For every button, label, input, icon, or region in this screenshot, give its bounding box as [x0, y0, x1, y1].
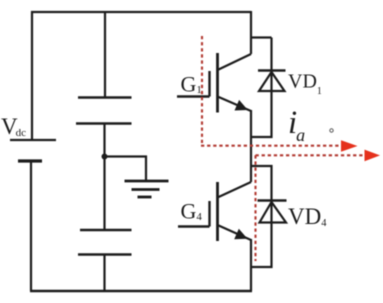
wire: VD1 branch [251, 38, 272, 138]
capacitor C2 top plate [80, 229, 132, 232]
wire: bottom rail [30, 290, 252, 293]
svg-text:G1: G1 [181, 72, 202, 97]
arrowhead of VD4 current path [365, 150, 381, 162]
wire: center branch lower [103, 255, 105, 292]
wire: right branch top [250, 11, 252, 54]
wire: right branch mid (output node) [250, 110, 252, 182]
svg-text:Vdc: Vdc [1, 114, 26, 139]
wire: left vertical (top, to battery) [31, 11, 33, 140]
wire: VD4 branch [251, 166, 272, 267]
arrowhead of G1 current path [341, 140, 358, 151]
current path ia through G1 (red dashed with arrow) [201, 36, 340, 146]
wire: ground lead [105, 157, 147, 181]
transistor Q1 (IGBT, gate G1) [177, 53, 251, 113]
wire: left vertical (battery to bottom rail) [30, 161, 32, 291]
wire: top rail [31, 11, 251, 13]
svg-text:G4: G4 [181, 199, 203, 224]
diode VD4 [258, 201, 287, 223]
ground bar 1 [125, 180, 169, 183]
wire: center branch upper [104, 11, 106, 97]
wire: center branch middle [103, 124, 105, 231]
wire: VD1 branch top tee [251, 36, 272, 38]
svg-text:VD1: VD1 [288, 71, 322, 98]
svg-text:ia: ia [288, 105, 305, 145]
wire: right branch bottom [250, 239, 252, 291]
battery Vdc short plate (-) [18, 159, 42, 162]
current path ia through VD4 (red dashed with arrow) [256, 155, 366, 261]
capacitor C1 bottom plate [76, 122, 132, 125]
ground bar 3 [138, 196, 152, 199]
ground bar 2 [132, 188, 160, 191]
battery Vdc long plate (+) [10, 139, 56, 141]
capacitor C1 top plate [78, 96, 132, 99]
diode VD1 [258, 71, 286, 92]
transistor Q2 (IGBT, gate G4) [178, 182, 251, 241]
node: DC midpoint junction [102, 154, 108, 160]
svg-text:VD4: VD4 [288, 204, 327, 229]
capacitor C2 bottom plate [78, 253, 132, 256]
